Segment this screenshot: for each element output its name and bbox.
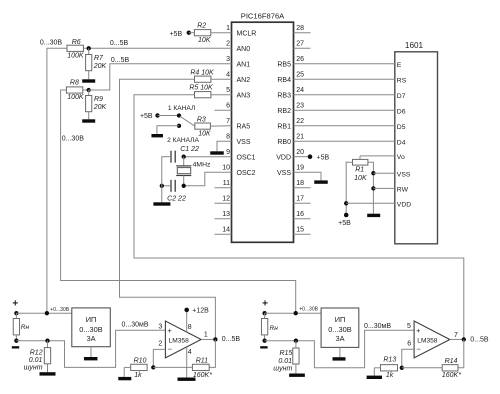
svg-text:0...5В: 0...5В — [110, 40, 129, 47]
svg-text:0...5В: 0...5В — [470, 336, 489, 343]
svg-text:RB3: RB3 — [277, 92, 291, 99]
svg-text:+: + — [167, 326, 172, 335]
svg-text:13: 13 — [222, 211, 230, 218]
svg-text:26: 26 — [296, 56, 304, 63]
svg-text:RS: RS — [397, 77, 407, 84]
svg-text:шунт: шунт — [24, 365, 43, 372]
svg-text:R8: R8 — [70, 80, 79, 87]
svg-text:4MHz: 4MHz — [193, 161, 211, 168]
svg-text:+: + — [12, 299, 18, 310]
svg-text:+12В: +12В — [192, 307, 209, 314]
svg-text:D7: D7 — [397, 93, 406, 100]
svg-text:R1: R1 — [355, 166, 364, 173]
svg-text:ИП: ИП — [86, 315, 97, 324]
svg-text:18: 18 — [296, 180, 304, 187]
svg-text:22: 22 — [296, 118, 304, 125]
svg-text:10K: 10K — [198, 37, 211, 44]
svg-text:PIC16F876A: PIC16F876A — [241, 11, 285, 20]
svg-text:R7: R7 — [94, 55, 104, 62]
svg-text:5: 5 — [226, 87, 230, 94]
svg-text:8: 8 — [226, 133, 230, 140]
svg-text:160K*: 160K* — [193, 372, 212, 379]
svg-text:21: 21 — [296, 133, 304, 140]
svg-text:Rн: Rн — [270, 325, 279, 332]
svg-text:3: 3 — [158, 323, 162, 330]
svg-text:OSC1: OSC1 — [237, 154, 256, 161]
svg-text:17: 17 — [296, 195, 304, 202]
svg-text:0...30В: 0...30В — [40, 40, 63, 47]
svg-text:9: 9 — [226, 149, 230, 156]
svg-text:RA5: RA5 — [237, 123, 251, 130]
svg-text:+5В: +5В — [338, 220, 351, 227]
svg-text:0...5В: 0...5В — [222, 336, 241, 343]
svg-text:0.01: 0.01 — [29, 357, 43, 364]
svg-text:7: 7 — [454, 332, 458, 339]
svg-text:5: 5 — [407, 323, 411, 330]
svg-text:8: 8 — [188, 324, 192, 331]
svg-text:10К: 10К — [198, 130, 211, 137]
svg-text:1: 1 — [226, 25, 230, 32]
svg-text:25: 25 — [296, 71, 304, 78]
svg-text:VDD: VDD — [397, 202, 411, 209]
svg-text:R12: R12 — [30, 349, 43, 356]
svg-text:Rн: Rн — [21, 324, 30, 331]
svg-text:R3: R3 — [197, 117, 206, 124]
svg-text:R6: R6 — [72, 39, 81, 46]
svg-text:R13: R13 — [383, 356, 396, 363]
svg-text:D5: D5 — [397, 124, 406, 131]
svg-text:D6: D6 — [397, 108, 406, 115]
svg-text:0...30В: 0...30В — [328, 325, 351, 334]
svg-text:0...30В: 0...30В — [79, 325, 102, 334]
svg-text:RB2: RB2 — [277, 108, 291, 115]
svg-text:D4: D4 — [397, 139, 406, 146]
svg-text:AN0: AN0 — [237, 46, 251, 53]
svg-text:6: 6 — [226, 102, 230, 109]
svg-text:+5В: +5В — [140, 113, 153, 120]
svg-text:3А: 3А — [335, 334, 344, 343]
svg-text:RW: RW — [397, 187, 409, 194]
svg-text:R15: R15 — [279, 350, 292, 357]
svg-text:6: 6 — [407, 341, 411, 348]
svg-text:2 КАНАЛА: 2 КАНАЛА — [167, 137, 199, 144]
svg-text:27: 27 — [296, 40, 304, 47]
svg-text:шунт: шунт — [273, 366, 292, 373]
svg-text:4: 4 — [226, 71, 230, 78]
svg-text:R2: R2 — [197, 23, 206, 30]
svg-text:+5В: +5В — [317, 154, 330, 161]
svg-text:1k: 1k — [134, 372, 142, 379]
svg-text:AN1: AN1 — [237, 61, 251, 68]
svg-text:RB5: RB5 — [277, 61, 291, 68]
svg-text:1601: 1601 — [405, 41, 424, 50]
svg-text:+: + — [262, 299, 268, 310]
svg-text:OSC2: OSC2 — [237, 170, 256, 177]
svg-text:−: − — [168, 344, 173, 353]
svg-text:15: 15 — [296, 226, 304, 233]
svg-text:+5В: +5В — [169, 31, 182, 38]
svg-text:RB0: RB0 — [277, 139, 291, 146]
svg-text:24: 24 — [296, 87, 304, 94]
svg-text:LM358: LM358 — [169, 337, 189, 344]
svg-text:19: 19 — [296, 164, 304, 171]
svg-text:LM358: LM358 — [417, 337, 437, 344]
svg-text:+0...30В: +0...30В — [299, 306, 318, 312]
svg-text:20K: 20K — [93, 104, 107, 111]
svg-text:20: 20 — [296, 149, 304, 156]
svg-text:20K: 20K — [93, 63, 107, 70]
svg-text:+0...30В: +0...30В — [50, 307, 69, 313]
svg-text:+: + — [416, 326, 421, 335]
svg-text:100K: 100K — [67, 53, 84, 60]
svg-text:Vo: Vo — [397, 154, 405, 161]
svg-text:C1 22: C1 22 — [180, 146, 199, 153]
svg-text:AN2: AN2 — [237, 77, 251, 84]
svg-text:4: 4 — [188, 349, 192, 356]
svg-text:12: 12 — [222, 195, 230, 202]
svg-text:RB1: RB1 — [277, 123, 291, 130]
svg-text:R14: R14 — [445, 358, 458, 365]
svg-text:14: 14 — [222, 226, 230, 233]
svg-text:RB4: RB4 — [277, 77, 291, 84]
svg-text:0...30мВ: 0...30мВ — [364, 323, 391, 330]
svg-text:VSS: VSS — [237, 139, 251, 146]
svg-text:2: 2 — [226, 40, 230, 47]
svg-text:160K*: 160K* — [442, 372, 461, 379]
svg-text:R11: R11 — [196, 357, 208, 364]
svg-text:1: 1 — [204, 332, 208, 339]
svg-text:0...5В: 0...5В — [111, 57, 130, 64]
svg-text:10: 10 — [222, 164, 230, 171]
svg-text:−: − — [417, 344, 422, 353]
svg-text:VSS: VSS — [277, 170, 291, 177]
svg-text:100K: 100K — [67, 94, 84, 101]
svg-text:1 КАНАЛ: 1 КАНАЛ — [168, 105, 195, 112]
svg-text:23: 23 — [296, 102, 304, 109]
svg-text:1k: 1k — [386, 372, 394, 379]
svg-text:7: 7 — [226, 118, 230, 125]
svg-text:R10: R10 — [134, 357, 147, 364]
svg-text:0.01: 0.01 — [278, 358, 292, 365]
svg-text:R9: R9 — [94, 96, 103, 103]
svg-text:11: 11 — [223, 180, 230, 187]
svg-text:3А: 3А — [86, 334, 95, 343]
svg-text:R4 10K: R4 10K — [190, 69, 214, 76]
svg-text:28: 28 — [296, 25, 304, 32]
svg-text:R5 10K: R5 10K — [189, 85, 213, 92]
svg-text:0...30мВ: 0...30мВ — [122, 321, 149, 328]
svg-text:MCLR: MCLR — [237, 30, 257, 37]
svg-text:ИП: ИП — [335, 315, 346, 324]
svg-text:3: 3 — [226, 56, 230, 63]
svg-text:VSS: VSS — [397, 171, 411, 178]
svg-text:16: 16 — [296, 211, 304, 218]
svg-text:VDD: VDD — [276, 154, 291, 161]
svg-text:2: 2 — [158, 341, 162, 348]
svg-text:AN3: AN3 — [237, 92, 251, 99]
svg-text:C2 22: C2 22 — [167, 195, 186, 202]
svg-text:10K: 10K — [354, 175, 367, 182]
svg-text:0...30В: 0...30В — [62, 135, 85, 142]
svg-text:E: E — [397, 62, 402, 69]
